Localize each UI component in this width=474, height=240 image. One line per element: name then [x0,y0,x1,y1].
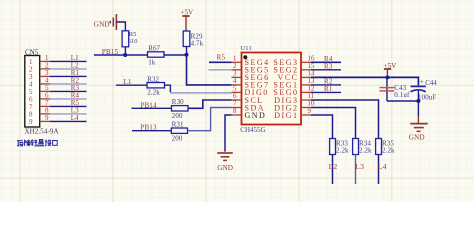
wire CN6 pin 5 [50,90,87,92]
CN6 pin 2 stub [40,68,50,70]
svg-text:9: 9 [29,118,33,126]
svg-text:0.1uf: 0.1uf [394,91,410,99]
wire to ground [417,101,419,116]
ground GND (right) [417,116,419,123]
svg-text:R67: R67 [148,45,160,53]
wire CN6 pin 6 [50,98,87,100]
wire bottom rail C43-C44 [387,100,418,102]
wire PB15 [94,54,148,56]
svg-text:2.2k: 2.2k [359,146,372,154]
svg-text:9: 9 [308,107,312,115]
svg-text:2.2k: 2.2k [147,89,160,97]
svg-text:200: 200 [172,112,183,120]
resistor R67 [148,52,165,57]
wire PB13 [132,130,171,132]
capacitor C44 [411,85,426,87]
svg-text:+: + [420,77,424,86]
resistor R33 [330,139,336,155]
pin 9 stub [301,114,311,116]
resistor R29 [183,31,190,47]
svg-text:C44: C44 [425,80,437,87]
svg-text:1k: 1k [148,59,156,67]
wire CN6 pin 4 [50,83,87,85]
pin 12 stub [301,91,311,93]
svg-text:L4: L4 [71,114,79,122]
wire GND to R5 [116,22,125,31]
wire pin 16 to net R4 [311,61,341,63]
svg-text:GND: GND [409,134,425,142]
svg-text:XH2.54-9A: XH2.54-9A [25,127,59,135]
wire pin 13 to net R2 [311,84,341,86]
svg-text:R32: R32 [147,75,159,83]
svg-text:510: 510 [128,38,138,45]
junction (+5V rail) [385,75,389,79]
svg-text:U11: U11 [240,45,252,52]
svg-text:L4: L4 [378,162,387,171]
pin 4 stub [232,84,242,86]
svg-text:L3: L3 [355,162,364,171]
wire pin 15 to net R3 [311,69,341,71]
resistor R31 [171,128,187,133]
wire pin 11 to R35 [311,100,379,139]
pin 6 stub [232,99,242,101]
pin 16 stub [301,61,311,63]
svg-text:GND: GND [94,21,110,29]
pin 2 stub [232,69,242,71]
CN6 pin 1 stub [40,60,50,62]
svg-text:R5: R5 [217,54,226,62]
svg-text:GND: GND [245,111,267,120]
op-amp U11 (CH455G) body [242,53,302,125]
svg-text:DIG1: DIG1 [274,111,298,120]
svg-text:R5: R5 [129,31,137,38]
wire VCC rail (pin 14 to C44) [311,77,418,85]
svg-text:200: 200 [172,134,183,142]
svg-text:2.2k: 2.2k [382,146,395,154]
svg-text:8: 8 [233,107,237,115]
CN6 pin 4 stub [40,83,50,85]
junction (C44 bottom) [416,99,420,103]
svg-text:4.7k: 4.7k [191,40,204,48]
CN6 pin 9 stub [40,120,50,122]
pin 10 stub [301,107,311,109]
svg-text:R30: R30 [172,98,184,106]
wire pin 8 (GND) down [225,115,232,152]
pin 11 stub [301,99,311,101]
wire pin 9 to R33 [311,115,333,139]
wire pin 12 to net R1 [311,91,341,93]
CN6 pin 7 stub [40,105,50,107]
wire R29 to junction [186,47,188,56]
svg-text:R3: R3 [324,62,333,70]
wire R5 to PB15 net [124,47,126,55]
pin 8 stub [232,114,242,116]
wire R31 to pin 7 (SDA) [188,108,232,131]
svg-text:9: 9 [45,114,49,122]
svg-text:R1: R1 [324,85,333,93]
capacitor C43 [386,77,388,101]
wire CN6 pin 3 [50,75,87,77]
wire R30 to pin 6 (SCL) [188,100,232,108]
svg-text:2.2k: 2.2k [336,146,349,154]
pin 7 stub [232,107,242,109]
svg-text:GND: GND [217,164,233,172]
wire L1 [116,84,147,86]
resistor R30 [172,106,189,111]
resistor R32 [147,83,165,88]
ground GND (below chip) [217,152,233,154]
wire CN6 pin 7 [50,105,87,107]
CN6 pin 3 stub [40,75,50,77]
svg-text:L2: L2 [329,162,338,171]
svg-text:100uF: 100uF [418,93,436,101]
svg-text:CN5: CN5 [25,49,39,57]
svg-text:CH455G: CH455G [240,126,265,134]
label 矩阵键盘接口 (hand-drawn CJK strokes) [17,140,57,146]
wire CN6 pin 1 [50,60,87,62]
resistor R5 [122,31,129,47]
junction (R5/PB15) [123,53,127,57]
pin 13 stub [301,84,311,86]
wire R34 tail / net L3 [355,155,357,185]
wire CN6 pin 8 [50,113,87,115]
wire CN6 pin 9 [50,120,87,122]
CN6 pin 8 stub [40,113,50,115]
pin 1 marker dot [243,55,247,59]
wire to pin 5 (DIG0) [170,92,231,94]
pin 5 stub [232,91,242,93]
resistor R34 [353,139,359,155]
connector CN6 [25,56,40,128]
pin 14 stub [301,76,311,78]
svg-text:R31: R31 [172,120,184,128]
wire PB14 [132,107,172,109]
junction (R29/R67) [185,53,189,57]
wire CN6 pin 2 [50,68,87,70]
wire R67 to junction [164,54,187,56]
CN6 pin 6 stub [40,98,50,100]
CN6 pin 5 stub [40,90,50,92]
wire R33 tail / net L2 [332,155,334,185]
wire net R5 to pin 1 [209,61,232,63]
wire R32 out jog [165,85,171,92]
pin 3 stub [232,76,242,78]
wire to pin 2 [209,69,232,71]
wire pin 10 to R34 [311,108,356,139]
wire junction down to pin 4 (SEG7) [187,55,232,85]
pin 15 stub [301,69,311,71]
pin 1 stub [232,61,242,63]
resistor R35 [376,139,382,155]
wire R35 tail / net L4 [378,155,380,185]
